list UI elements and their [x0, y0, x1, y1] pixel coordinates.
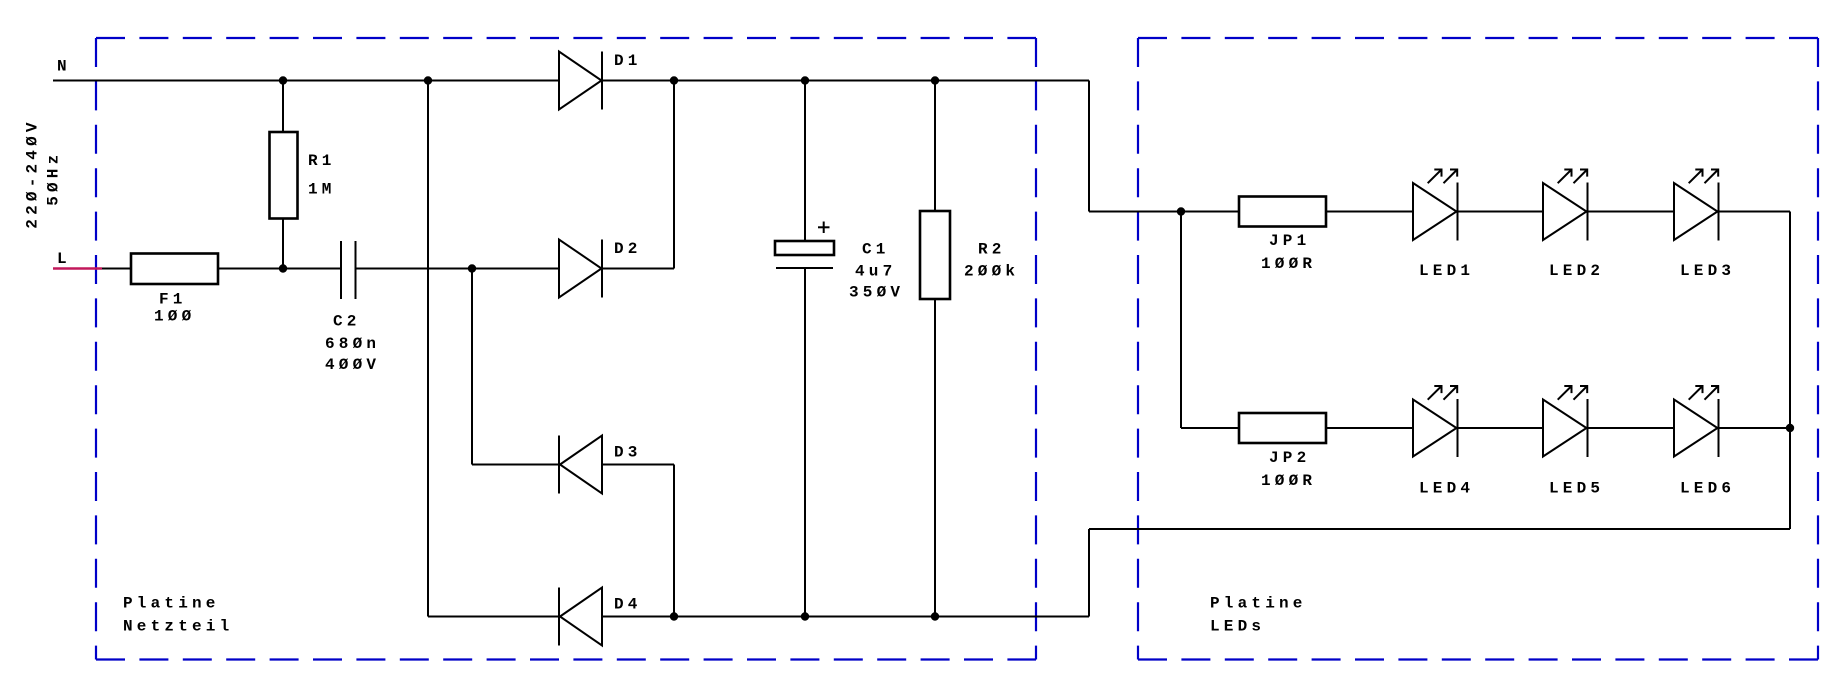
svg-text:R2: R2: [978, 241, 1006, 259]
svg-text:1ØØR: 1ØØR: [1261, 472, 1316, 490]
svg-text:JP1: JP1: [1269, 232, 1310, 250]
wire JP1 LED row 1: [1326, 211, 1790, 213]
board outline Platine Netzteil (dashed frame): [96, 38, 1036, 660]
resistor R1: [270, 132, 336, 219]
diode D4: [559, 588, 642, 646]
junction LED board input: [1177, 207, 1185, 215]
wire D3 row: [472, 464, 674, 466]
svg-text:LED4: LED4: [1419, 480, 1474, 498]
svg-text:2ØØk: 2ØØk: [964, 263, 1019, 281]
LED LED6: [1674, 386, 1735, 498]
LED LED1: [1413, 170, 1474, 281]
svg-text:L: L: [57, 250, 71, 268]
svg-text:D1: D1: [614, 52, 642, 70]
diode D2: [559, 240, 642, 298]
wire D4 bottom row: [428, 616, 1089, 618]
junction C1 top: [801, 76, 809, 84]
svg-text:JP2: JP2: [1269, 449, 1310, 467]
label Platine LEDs: [1210, 595, 1307, 636]
svg-text:D3: D3: [614, 444, 642, 462]
svg-text:C2: C2: [333, 312, 361, 330]
wire L row: [102, 268, 674, 270]
board outline Platine LEDs (dashed frame): [1138, 38, 1818, 660]
jumper JP1: [1239, 197, 1326, 274]
svg-text:D4: D4: [614, 596, 642, 614]
junction L/R1: [279, 264, 287, 272]
svg-text:Platine: Platine: [123, 595, 220, 613]
wire diode output column: [673, 81, 675, 617]
capacitor C1 electrolytic: [775, 222, 904, 302]
svg-text:1ØØ: 1ØØ: [154, 308, 195, 326]
label 220-240V 50Hz (rotated supply label): [24, 118, 63, 228]
wire D2/D3 anode branch vertical: [471, 269, 473, 465]
svg-text:LED2: LED2: [1549, 262, 1604, 280]
svg-text:1ØØR: 1ØØR: [1261, 255, 1316, 273]
label Platine Netzteil: [123, 595, 233, 636]
svg-text:LED5: LED5: [1549, 480, 1604, 498]
wire net N top: [53, 80, 1089, 82]
LED LED4: [1413, 386, 1474, 498]
junction R2 bottom: [931, 612, 939, 620]
wire R2 vertical stubs: [934, 81, 936, 617]
junction LED board output: [1786, 424, 1794, 432]
svg-text:D2: D2: [614, 240, 642, 258]
junction R2 top: [931, 76, 939, 84]
wire LED board output vertical: [1789, 212, 1791, 530]
wire L pink segment: [53, 267, 102, 270]
jumper JP2: [1239, 413, 1326, 490]
svg-text:5ØHz: 5ØHz: [45, 151, 63, 206]
wire bridge left vertical: [427, 81, 429, 617]
svg-text:LED3: LED3: [1680, 262, 1735, 280]
svg-text:22Ø-24ØV: 22Ø-24ØV: [24, 118, 42, 228]
svg-text:C1: C1: [862, 241, 890, 259]
svg-text:4u7: 4u7: [855, 263, 896, 281]
svg-text:Netzteil: Netzteil: [123, 618, 233, 636]
LED LED2: [1543, 170, 1604, 281]
diode D3: [559, 436, 642, 494]
svg-text:LEDs: LEDs: [1210, 618, 1265, 636]
wire LED board input vertical: [1180, 212, 1182, 429]
wire R1 vertical stubs: [282, 81, 284, 269]
diode D1: [559, 52, 642, 110]
LED LED3: [1674, 170, 1735, 281]
junction N/bridge: [424, 76, 432, 84]
junction N/R1: [279, 76, 287, 84]
junction D4 out: [670, 612, 678, 620]
svg-text:N: N: [57, 58, 71, 76]
wire C1 vertical stubs: [804, 81, 806, 617]
svg-text:LED1: LED1: [1419, 262, 1474, 280]
wire link from LED board bottom: [1089, 529, 1790, 617]
junction D2 anode: [468, 264, 476, 272]
junction C1 bottom: [801, 612, 809, 620]
resistor R2: [920, 211, 1019, 299]
svg-text:68Øn: 68Øn: [325, 335, 380, 353]
fuse F1: [131, 254, 218, 326]
wire JP2 LED row 2: [1181, 427, 1790, 429]
wire link to LED board top: [1089, 81, 1239, 212]
svg-text:4ØØV: 4ØØV: [325, 356, 380, 374]
svg-text:1M: 1M: [308, 181, 336, 199]
svg-text:35ØV: 35ØV: [849, 284, 904, 302]
svg-text:Platine: Platine: [1210, 595, 1307, 613]
LED LED5: [1543, 386, 1604, 498]
svg-text:LED6: LED6: [1680, 480, 1735, 498]
svg-text:F1: F1: [159, 291, 187, 309]
junction D1 out: [670, 76, 678, 84]
capacitor C2: [325, 241, 380, 374]
svg-text:R1: R1: [308, 152, 336, 170]
